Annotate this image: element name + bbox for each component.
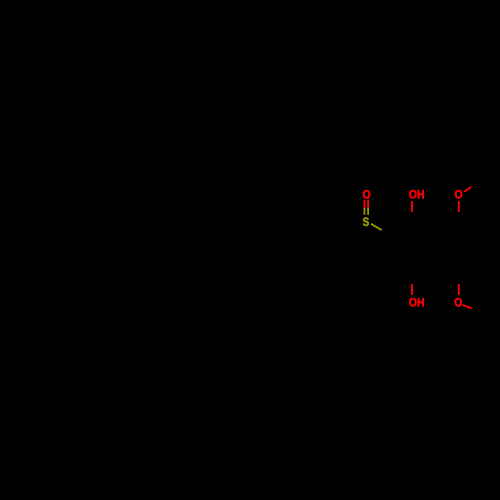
svg-text:S: S — [363, 215, 370, 229]
svg-text:OH: OH — [409, 298, 425, 310]
svg-text:OH: OH — [409, 190, 425, 202]
svg-text:O: O — [455, 190, 463, 202]
svg-text:O: O — [454, 298, 462, 310]
